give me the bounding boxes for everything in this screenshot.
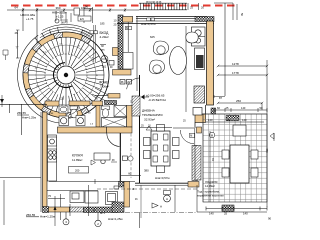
svg-text:Hпв=0,37м: Hпв=0,37м [141, 22, 156, 26]
stair treads [69, 85, 76, 112]
bidet left room [76, 116, 85, 126]
dim row 60-25-140-50 [214, 109, 267, 111]
svg-text:98 РП: 98 РП [61, 22, 68, 25]
kitchen door arc [107, 133, 120, 146]
lower cabinet 3 [106, 192, 118, 205]
terrace bottom checker pier [222, 205, 234, 212]
entrance overhang arcs [40, 29, 90, 37]
terrace top checker [226, 116, 239, 121]
toilet right room [102, 106, 110, 110]
entry door rect [74, 8, 80, 15]
kitchen circle mark [101, 159, 105, 163]
bathroom east wall orange [127, 106, 133, 128]
entry small box [78, 34, 84, 39]
dining east wall hatch [192, 146, 198, 181]
right wall orange masonry [207, 21, 214, 105]
kitchen-dining checker corner [119, 182, 125, 188]
divider tick [94, 179, 96, 184]
bottom dash-dot line [125, 211, 197, 213]
svg-text:140: 140 [241, 106, 246, 110]
svg-text:А: А [166, 197, 168, 201]
overhang step lines [57, 27, 60, 33]
svg-text:380: 380 [144, 169, 149, 173]
svg-text:КУХНЯ: КУХНЯ [72, 154, 83, 158]
svg-text:А: А [160, 205, 162, 209]
dim 1278 [218, 65, 267, 67]
top wall orange block [123, 17, 133, 23]
svg-text:ТРАПЕЗАРИЯ: ТРАПЕЗАРИЯ [142, 113, 162, 117]
entrance extension vlines [93, 25, 95, 62]
dining chair top [157, 125, 165, 132]
bathroom east wall hatch [132, 96, 140, 116]
left extension lines [22, 8, 24, 31]
section circle A [164, 195, 171, 202]
svg-text:08 10 96 10 08: 08 10 96 10 08 [146, 2, 162, 4]
right wall lower orange corner [195, 114, 206, 123]
south wall checker strip [84, 207, 119, 213]
south wall orange strip [49, 207, 70, 212]
circled M mark [209, 132, 215, 138]
stair hatch piers in wall [81, 35, 91, 43]
label box 200 [69, 167, 89, 174]
circled 3 mark [65, 212, 67, 219]
dining chair bottom [157, 166, 165, 173]
chair near wall [186, 32, 199, 43]
stair walk line dashed [45, 54, 87, 95]
top wall inner face [117, 23, 214, 25]
left vertical extensions [20, 104, 22, 135]
south wall hatch strip [70, 207, 84, 212]
svg-text:+1.75: +1.75 [26, 17, 34, 21]
south wall checker corner [43, 207, 49, 213]
kitchen door triangle [91, 160, 96, 165]
foyer small rect mark [109, 61, 114, 66]
left vertical dim 77 [17, 30, 19, 58]
svg-text:120: 120 [60, 98, 65, 101]
cabinet top line [47, 190, 98, 192]
svg-text:Hпв=0,57м: Hпв=0,57м [155, 176, 170, 180]
left lower horizontal line [0, 177, 41, 179]
oval coffee table [170, 47, 187, 75]
dining south wall [135, 182, 197, 184]
kitchen west wall orange [43, 112, 48, 207]
bottom verticals [174, 185, 176, 212]
svg-text:140: 140 [208, 118, 213, 122]
svg-text:керамични настилки: керамични настилки [197, 194, 224, 198]
entrance east wall checker [118, 15, 123, 69]
svg-text:25: 25 [227, 118, 230, 122]
stair center column [57, 66, 75, 84]
svg-text:+1.25: +1.25 [56, 15, 64, 19]
dining north line [140, 127, 173, 129]
svg-text:7.06м²: 7.06м² [100, 85, 109, 89]
lower cabinet 2 [85, 191, 98, 203]
main wall foyer-dining vertical [139, 75, 141, 183]
entry steps [55, 11, 57, 21]
direction triangle [152, 203, 158, 208]
terrace outline [203, 114, 267, 202]
fireplace cabinet [192, 27, 206, 46]
stair overhang outer circle [17, 35, 59, 123]
svg-text:90: 90 [268, 217, 272, 221]
svg-text:М: М [211, 133, 213, 137]
dim 250 row [218, 102, 262, 104]
svg-text:185: 185 [100, 22, 105, 26]
lower cabinet 1 [70, 191, 84, 203]
bottom dashed axis [97, 188, 197, 190]
svg-text:64: 64 [15, 5, 19, 9]
corner dimension lines [214, 2, 233, 4]
dining south orange [188, 182, 199, 188]
top wall window lines [136, 16, 207, 18]
dining-terrace wall hatch [195, 146, 201, 181]
svg-text:-0.15 БЕТОН: -0.15 БЕТОН [148, 98, 166, 102]
svg-text:М: М [190, 135, 192, 138]
foyer circled fixture [101, 56, 108, 63]
red dashed boundary line [11, 5, 235, 7]
terrace bottom dim row [206, 208, 267, 210]
left flag symbol [3, 50, 8, 60]
terrace top dims [206, 121, 264, 123]
svg-text:256.55: 256.55 [26, 213, 36, 217]
svg-text:200: 200 [75, 169, 80, 173]
sink left room [59, 106, 68, 113]
foyer east wall orange corner [113, 70, 132, 76]
bathroom north wall orange segments [45, 101, 59, 106]
bathroom south wall orange ext [107, 127, 133, 133]
closet rect [123, 53, 133, 70]
long divider line [49, 181, 135, 183]
right wall check tick [211, 108, 216, 114]
bottom-left vertical dim [54, 196, 56, 226]
foyer east wall orange upper [113, 48, 119, 56]
radiator hatch [194, 86, 205, 103]
kitchen island [94, 153, 110, 160]
svg-text:РП: РП [101, 49, 105, 52]
bathroom partition orange [96, 106, 100, 128]
terrace flag symbol [270, 133, 274, 139]
terrace tile grid [203, 114, 267, 202]
bottom extension verticals [88, 185, 90, 216]
porch outline [83, 7, 85, 23]
svg-text:32.93м²: 32.93м² [144, 118, 155, 122]
svg-text:625: 625 [150, 35, 155, 39]
dining east orange top [197, 127, 202, 133]
south wall checker block right [112, 202, 124, 213]
right vertical dim line [266, 60, 268, 207]
foyer-living door arc [139, 78, 141, 91]
top dimension line [7, 9, 110, 11]
top-right wall checker [195, 17, 214, 22]
kitchen-dining orange wall [124, 182, 130, 208]
level circle symbol [55, 19, 59, 23]
toilet left room [70, 106, 78, 110]
corridor dashed axis [130, 100, 132, 178]
pendant lamp symbol [146, 126, 152, 130]
left lower boundary line [3, 180, 5, 225]
kitchen counter left column [48, 135, 57, 181]
svg-text:Hпв=1,25м: Hпв=1,25м [40, 214, 55, 218]
electric box [78, 16, 91, 21]
stair lower straight steps [95, 88, 110, 96]
terrace inner dim line [209, 131, 211, 202]
svg-text:ЕЛ.: ЕЛ. [80, 17, 85, 21]
door label box [190, 133, 195, 137]
svg-text:140: 140 [242, 118, 247, 122]
svg-text:250: 250 [236, 99, 241, 103]
corridor west wall [119, 133, 121, 182]
side table [193, 108, 202, 116]
stair inner dark arc [54, 63, 73, 88]
svg-text:Hпв=1,25м: Hпв=1,25м [22, 115, 36, 119]
svg-text:8Р: 8Р [93, 211, 96, 213]
dining table inner settings [153, 134, 158, 140]
svg-text:50: 50 [240, 13, 244, 17]
bathtub right room [102, 118, 127, 128]
meter boxes [120, 80, 125, 85]
svg-text:ВР 0: ВР 0 [100, 213, 106, 215]
terrace chairs [222, 150, 229, 159]
bathroom south wall orange [58, 127, 107, 133]
terrace door arc [180, 130, 194, 144]
left edge arrow mark [1, 95, 3, 107]
stair curved orange wall [23, 32, 91, 118]
svg-text:4.29м²: 4.29м² [100, 35, 109, 39]
svg-text:Hпв=1,25м: Hпв=1,25м [108, 217, 123, 221]
left extension line long [0, 103, 47, 105]
entrance tiny boxes [90, 31, 93, 34]
armchair 2 [149, 60, 164, 74]
terrace table [230, 145, 249, 183]
balustrade railing [139, 2, 187, 4]
top wall tick boxes [147, 18, 151, 21]
foyer south wall orange [108, 94, 120, 99]
circled 2 mark [97, 213, 99, 220]
svg-text:360: 360 [55, 6, 60, 10]
svg-text:±0.00=256.65: ±0.00=256.65 [146, 93, 165, 97]
closet inner line [127, 22, 129, 52]
dining chairs left-right [144, 138, 151, 146]
kitchen sink upper [48, 137, 57, 146]
bottom right extension vline [139, 212, 141, 228]
armchair 1 [153, 41, 168, 55]
corridor circled mark [128, 156, 133, 161]
dining table [151, 131, 170, 166]
svg-text:11.89м²: 11.89м² [72, 158, 82, 162]
washing machine [59, 116, 69, 126]
bathroom door arc left [69, 107, 77, 115]
entry pier hatch outer [81, 30, 93, 39]
stair intermediate tread lines [74, 94, 81, 110]
stair outer wall circle [23, 32, 109, 118]
svg-text:1278: 1278 [232, 62, 239, 66]
kitchen west outer line [40, 112, 42, 212]
living interior extension line [185, 26, 187, 112]
shower right room [114, 106, 127, 117]
small box near wall [114, 186, 119, 189]
bathroom north wall checker [105, 101, 117, 105]
svg-text:161: 161 [102, 65, 107, 69]
dim 1778 [218, 74, 267, 76]
stair tread guide circle [36, 45, 96, 105]
tall cabinet with dark core [195, 48, 205, 70]
terrace small table [233, 125, 246, 136]
svg-text:96: 96 [85, 5, 88, 9]
stair inner wall circle [28, 37, 104, 113]
svg-text:1778: 1778 [232, 71, 239, 75]
level mark diamond [141, 95, 145, 100]
stove burners [48, 149, 57, 162]
